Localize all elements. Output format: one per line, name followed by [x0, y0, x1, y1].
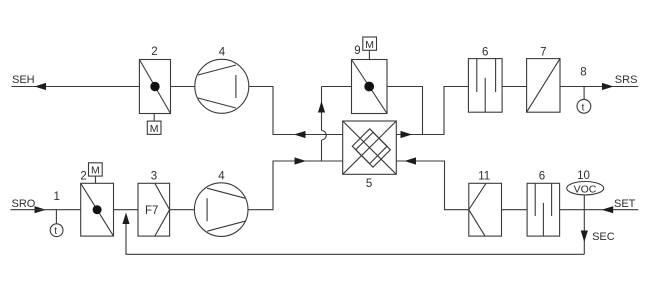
svg-text:SEC: SEC — [592, 231, 615, 243]
node 8 temperature sensor — [577, 87, 591, 114]
svg-text:6: 6 — [539, 170, 545, 182]
arrow recirculation flow up — [122, 213, 129, 225]
svg-text:3: 3 — [151, 170, 157, 182]
silencer 6 (top) — [468, 59, 502, 113]
arrow supply flow right — [401, 131, 413, 138]
damper 2 (top) — [139, 60, 170, 114]
heat exchanger 5 — [343, 121, 397, 174]
arrow SEH flow left — [35, 83, 47, 90]
wire damper9 to supply junction — [387, 87, 423, 135]
motor M of damper 2 (bottom) — [89, 163, 103, 184]
wire SEC branch down — [583, 210, 585, 255]
svg-text:11: 11 — [478, 170, 490, 182]
wire exchanger supply outlet to silencer 6 (top) — [396, 87, 468, 135]
arrow SRO flow right — [35, 206, 47, 213]
arrow bypass flow up — [318, 101, 325, 113]
svg-text:2: 2 — [80, 170, 86, 182]
arrow SEC flow down — [581, 231, 588, 243]
svg-text:M: M — [365, 39, 374, 51]
wire SRS supply outlet line — [560, 86, 638, 88]
svg-text:9: 9 — [354, 45, 360, 57]
svg-text:10: 10 — [577, 170, 590, 182]
svg-text:F7: F7 — [145, 205, 158, 217]
fan 4 (top) — [195, 59, 249, 113]
wire bypass riser to damper 9 (with hop over exhaust line) — [322, 87, 352, 162]
svg-text:SRO: SRO — [12, 198, 36, 210]
svg-text:SET: SET — [614, 198, 636, 210]
svg-text:4: 4 — [219, 46, 226, 58]
wire damper2 to filter 3 — [114, 209, 139, 211]
arrow return flow left into exchanger — [405, 157, 417, 164]
svg-text:8: 8 — [580, 67, 586, 79]
svg-text:2: 2 — [151, 46, 157, 58]
arrow exhaust flow left — [294, 131, 306, 138]
wire return duct from filter 11 to exchanger — [396, 161, 468, 210]
damper 9 (bypass) — [352, 60, 388, 114]
filter 3 F7 — [138, 183, 170, 236]
motor M of damper 2 (top) — [147, 114, 161, 136]
svg-text:SEH: SEH — [12, 74, 35, 86]
wire fan4 top to exchanger (exhaust duct) — [249, 87, 344, 135]
wire SEH exhaust outlet line — [12, 86, 140, 88]
wire silencer to heater 7 — [502, 86, 526, 88]
arrow supply flow right into exchanger — [295, 157, 307, 164]
wire filter11 to silencer 6 (bottom) — [502, 209, 528, 211]
wire SRO intake line — [11, 209, 81, 211]
svg-text:VOC: VOC — [574, 183, 597, 195]
motor M of damper 9 — [363, 37, 377, 60]
wire filter3 to fan4 (bottom) — [170, 209, 195, 211]
wire SET extract inlet line — [560, 209, 639, 211]
svg-text:1: 1 — [54, 191, 60, 203]
svg-text:SRS: SRS — [615, 74, 638, 86]
wire fan4 bottom to exchanger (supply duct) — [248, 161, 343, 210]
arrow SRS flow right — [602, 83, 614, 90]
svg-text:M: M — [91, 165, 100, 177]
svg-text:7: 7 — [540, 46, 546, 58]
arrow SET flow left — [602, 206, 614, 213]
svg-text:4: 4 — [218, 170, 225, 182]
wire recirculation line to supply duct — [126, 222, 584, 254]
svg-text:M: M — [150, 123, 159, 135]
svg-text:t: t — [582, 102, 585, 113]
silencer 6 (bottom) — [527, 183, 560, 236]
fan 4 (bottom) — [194, 183, 248, 237]
filter 11 — [469, 183, 502, 236]
heater 7 — [527, 59, 560, 113]
svg-text:5: 5 — [366, 178, 372, 190]
wire damper2 to fan4 (top) — [171, 86, 196, 88]
node 1 temperature sensor — [50, 210, 63, 238]
svg-text:6: 6 — [482, 46, 488, 58]
node 10 VOC sensor — [567, 182, 604, 210]
svg-text:t: t — [54, 226, 57, 237]
damper 2 (bottom) — [81, 183, 114, 236]
